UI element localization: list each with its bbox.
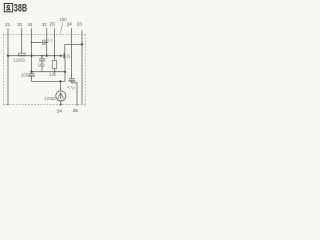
wire: terminal 24 lead vertical down right side <box>71 28 73 78</box>
capacitor C1 top plate <box>18 53 25 55</box>
wire: R1 bottom lead <box>53 69 55 72</box>
node: dot 41 lead x main wire <box>30 55 32 57</box>
svg-text:22: 22 <box>42 22 48 27</box>
capacitor C1 bottom plate on main wire <box>18 55 26 57</box>
svg-text:24: 24 <box>67 21 73 26</box>
transistor Q1 emitter arrow <box>60 54 63 57</box>
wire: transistor upper lead <box>64 44 66 53</box>
wire: C4 bottom lead and corner to bottom wire <box>32 76 66 82</box>
capacitor C5 top plate <box>69 78 75 80</box>
capacitor C3 top plate <box>39 58 45 60</box>
node: dot bottom wire x meter lead <box>59 80 61 82</box>
svg-text:23: 23 <box>49 22 55 27</box>
svg-text:23: 23 <box>77 21 83 26</box>
node: dot bus22 x C2 wire <box>46 42 48 44</box>
capacitor C4 (103) lead from lower wire <box>31 72 33 74</box>
node: dot 41 lead x upper branch <box>31 42 33 44</box>
svg-text:103: 103 <box>21 73 29 78</box>
node: dot 23 lead x main wire <box>53 55 55 57</box>
resistor R1 box <box>52 61 56 69</box>
capacitor C2 right plate <box>44 40 46 46</box>
svg-text:116Ω: 116Ω <box>13 58 25 63</box>
wire: left bus terminal 21 vertical <box>7 28 9 104</box>
svg-text:13k: 13k <box>49 72 57 77</box>
transistor Q1 bar <box>63 53 65 58</box>
title 图38B <box>4 4 12 12</box>
node: junction dot at left bus / main wire <box>7 55 9 57</box>
capacitor C5 bottom plate <box>68 80 75 82</box>
wire: upper branch to capacitor C2 <box>32 41 43 43</box>
svg-text:24: 24 <box>57 108 63 113</box>
capacitor C3 lead from main wire <box>41 55 43 57</box>
svg-text:25: 25 <box>73 108 79 113</box>
wire: terminal 22 bus vertical <box>46 28 48 56</box>
wire: lower horizontal wire <box>32 71 66 73</box>
frame: dashed enclosure border bottom <box>3 103 86 105</box>
wire: C5 bottom jog to terminal lead <box>72 81 77 106</box>
wire: terminal 23 lead vertical <box>53 28 55 60</box>
leader line from 100 to border <box>60 22 63 34</box>
capacitor C3 bottom plate <box>39 60 45 62</box>
svg-text:104Ω: 104Ω <box>44 96 56 101</box>
frame: dashed enclosure border left <box>2 34 4 104</box>
svg-text:100: 100 <box>60 17 68 22</box>
node: dot 41 lead x lower wire <box>30 71 32 73</box>
wire: meter top lead <box>59 81 61 91</box>
wire: main horizontal wire <box>8 55 60 57</box>
wire: meter bottom lead to terminal 24 <box>60 101 62 106</box>
meter M1 needle arrow <box>58 92 63 99</box>
node: dot lower wire right end <box>64 71 66 73</box>
capacitor C2 left plate <box>42 40 44 46</box>
node: dot R1 x lower wire <box>53 71 55 73</box>
svg-text:0.1: 0.1 <box>47 37 53 42</box>
capacitor C4 top plate <box>29 73 35 75</box>
svg-text:38B: 38B <box>14 3 28 15</box>
wire: terminal 41 lead vertical long <box>31 28 33 71</box>
wire: transistor lower lead down <box>64 58 66 81</box>
svg-text:41: 41 <box>28 22 34 27</box>
wire: right bus vertical <box>81 30 83 104</box>
wire: C3 bottom lead <box>41 61 43 72</box>
terminal pass dot <box>60 103 62 105</box>
wire: C2 to bus 22 <box>45 41 47 43</box>
frame: dashed enclosure border top <box>3 33 85 35</box>
wire: terminal 31 lead down to capacitor C1 <box>21 28 23 53</box>
node: left bus end on border <box>7 104 8 105</box>
svg-text:102: 102 <box>38 62 46 67</box>
frame: dashed enclosure border right <box>85 34 87 106</box>
svg-text:131: 131 <box>64 53 72 58</box>
node: dot right bus x collector wire <box>81 43 83 45</box>
svg-text:21: 21 <box>5 22 11 27</box>
node: dot bus22 x main wire <box>46 55 48 57</box>
svg-text:31: 31 <box>17 22 23 27</box>
capacitor C4 bottom plate <box>28 75 35 77</box>
meter M1 circle <box>56 91 66 101</box>
svg-text:4.7μ: 4.7μ <box>67 84 75 89</box>
wire: collector branch horizontal to right bus <box>65 43 82 45</box>
